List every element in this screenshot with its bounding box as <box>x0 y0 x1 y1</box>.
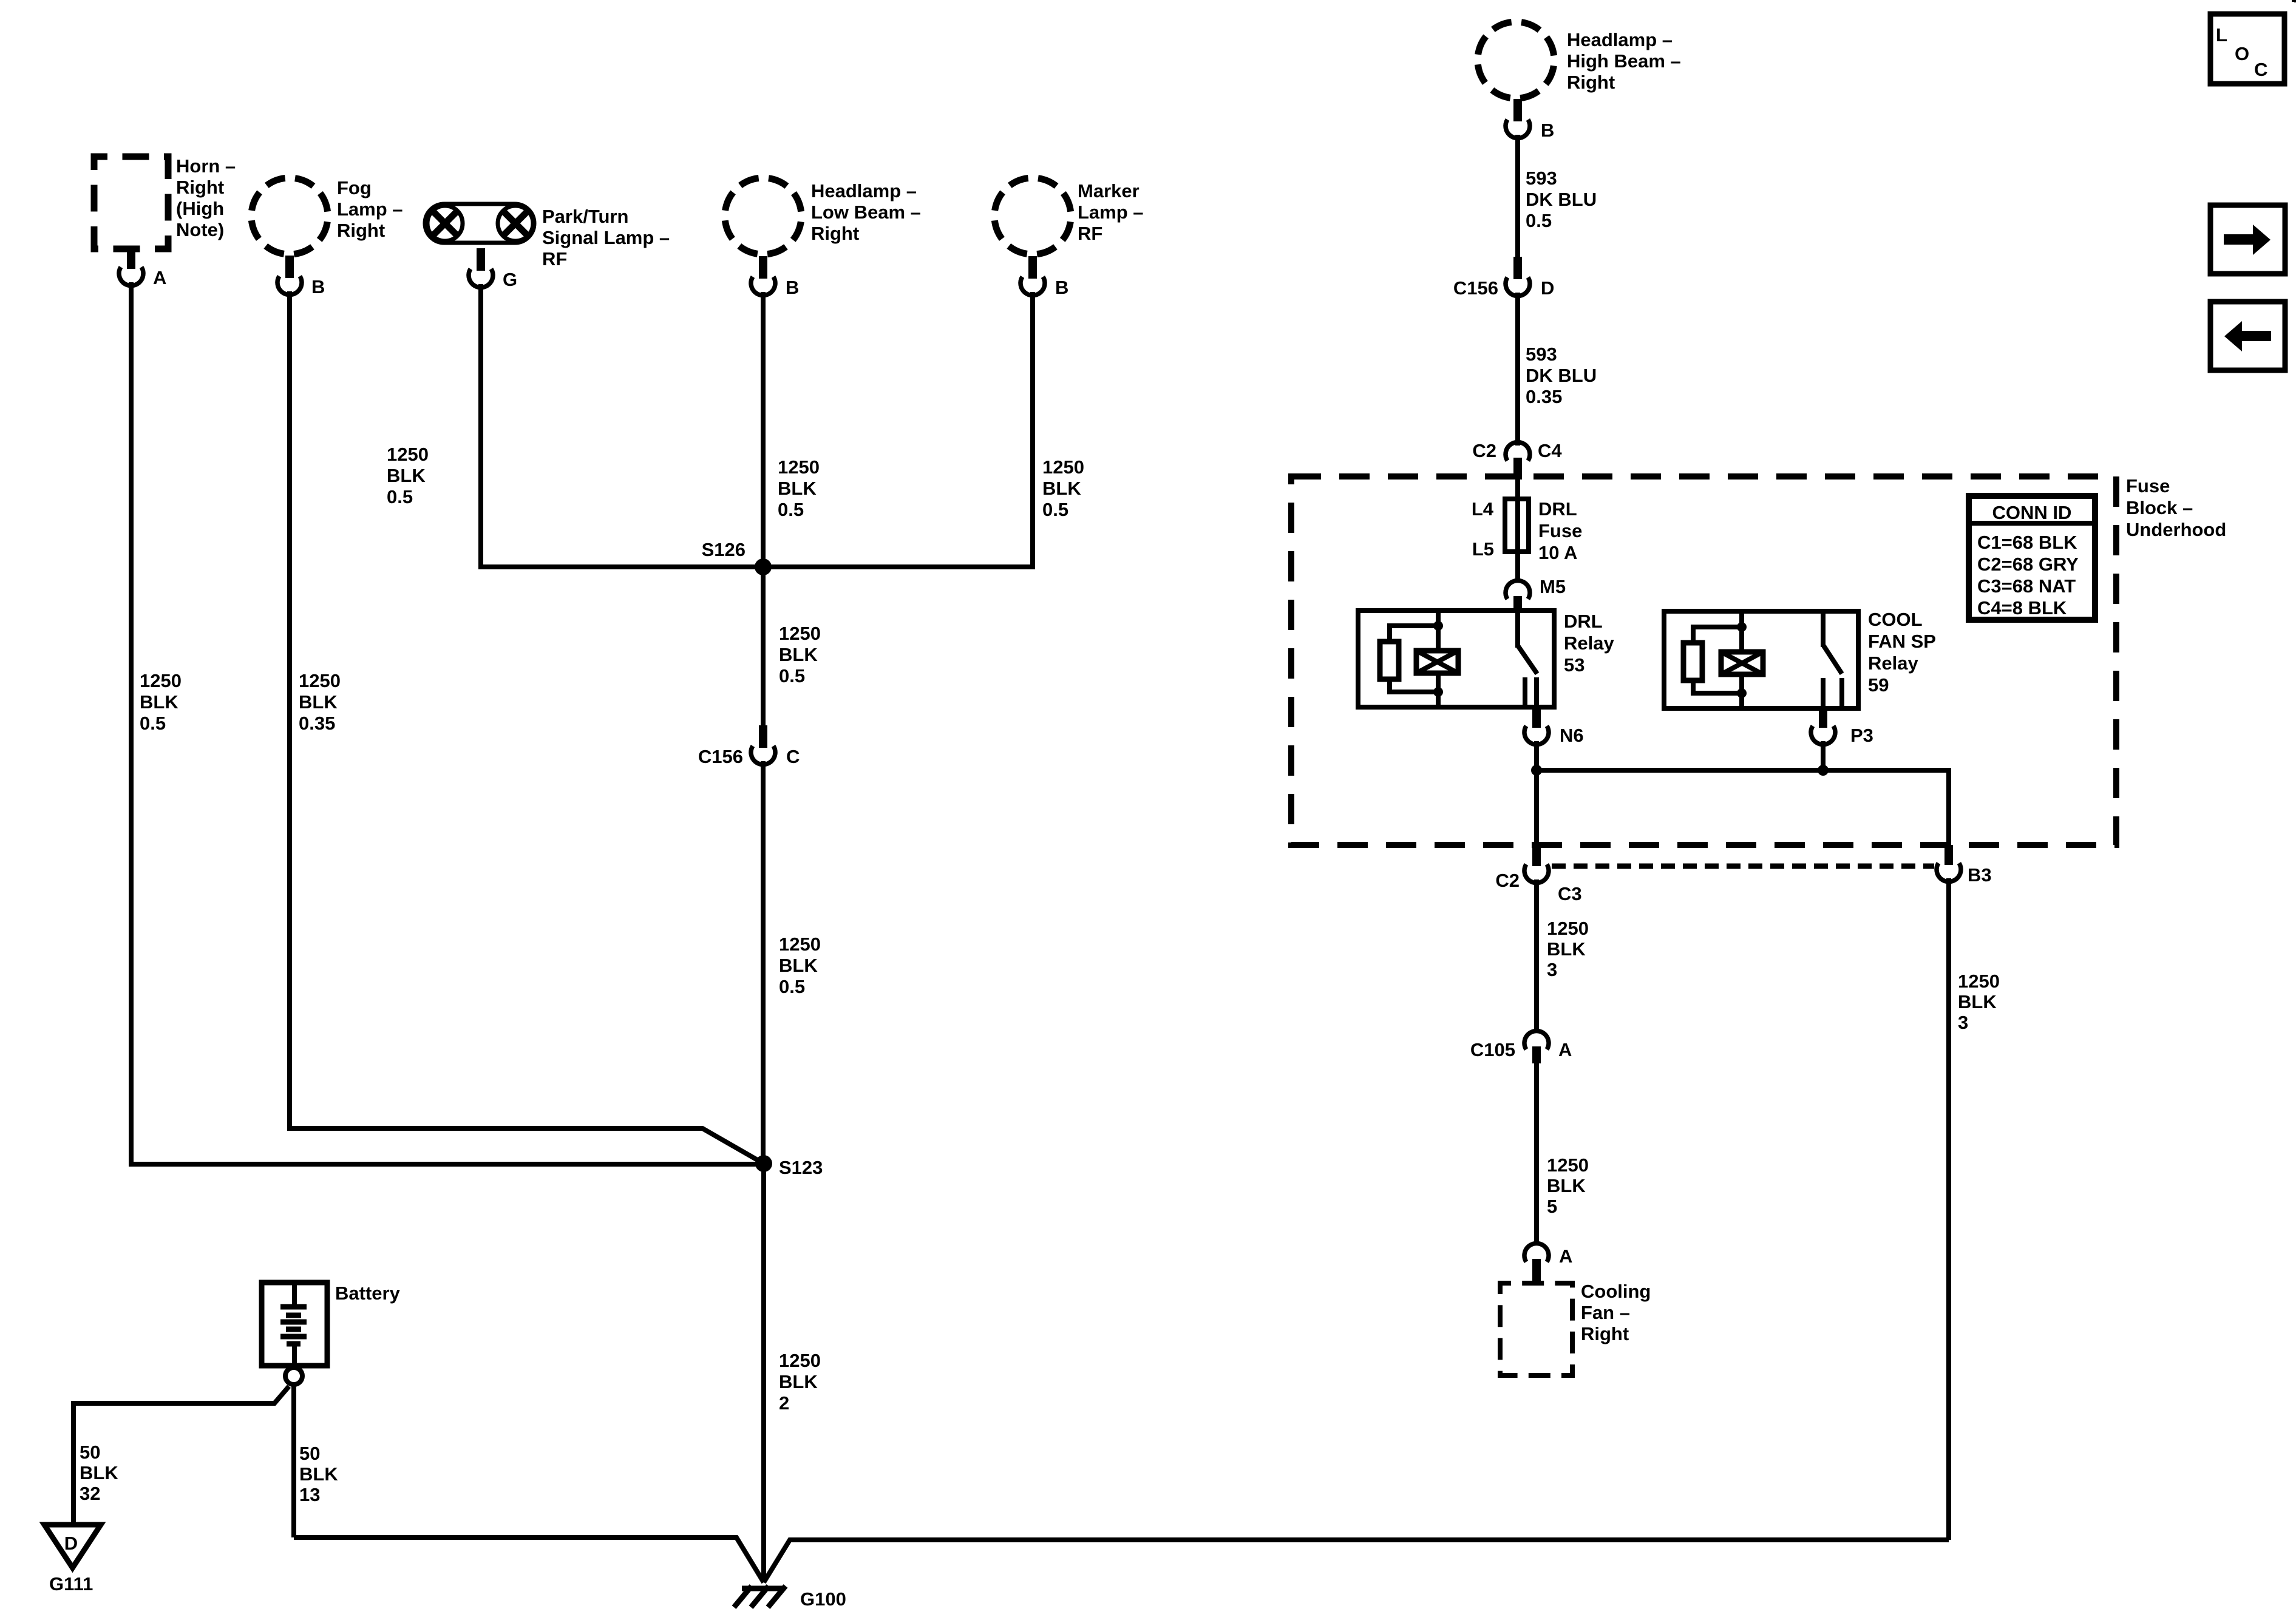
wire label 50 BLK 32 <box>80 1442 118 1504</box>
connector B (high beam) <box>1506 99 1530 138</box>
svg-text:Right: Right <box>1581 1323 1629 1344</box>
connector N6 <box>1524 707 1549 745</box>
DRL relay box <box>1358 611 1554 707</box>
svg-text:Fog: Fog <box>337 177 372 198</box>
wire C2/C3 to C105 <box>1534 879 1539 1032</box>
svg-text:C3: C3 <box>1558 883 1582 904</box>
svg-text:3: 3 <box>1958 1012 1968 1033</box>
svg-text:Right: Right <box>337 220 385 241</box>
fuse block label <box>2126 475 2226 540</box>
svg-text:Right: Right <box>1567 72 1615 93</box>
svg-text:1250: 1250 <box>140 670 182 691</box>
svg-text:BLK: BLK <box>299 1463 338 1485</box>
park/turn left bulb X <box>432 211 458 236</box>
svg-text:FAN SP: FAN SP <box>1868 631 1936 652</box>
wire label 1250 BLK 3 (C2) <box>1547 918 1589 980</box>
svg-text:5: 5 <box>1547 1196 1557 1217</box>
svg-text:1250: 1250 <box>778 456 820 478</box>
connector A (horn) <box>119 246 143 286</box>
svg-text:S123: S123 <box>779 1157 823 1178</box>
CONN ID table box <box>1969 496 2095 620</box>
COOL relay switch <box>1823 611 1842 708</box>
wire label 1250 BLK 0.5 (S126-C156) <box>779 623 821 686</box>
CONN ID rows <box>1977 532 2079 619</box>
svg-text:DRL: DRL <box>1538 498 1577 520</box>
svg-text:B: B <box>1541 120 1554 141</box>
wire C105 to cooling fan <box>1534 1062 1539 1244</box>
connector B (fog lamp) <box>277 256 302 295</box>
svg-text:0.5: 0.5 <box>779 665 805 686</box>
horn label <box>176 155 236 240</box>
svg-text:C4=8 BLK: C4=8 BLK <box>1977 597 2067 619</box>
COOL FAN SP relay box <box>1664 611 1858 708</box>
svg-text:Low Beam –: Low Beam – <box>811 202 921 223</box>
wire label 1250 BLK 0.5 (marker) <box>1042 456 1084 520</box>
ground G100 symbol <box>734 1586 786 1607</box>
svg-text:Park/Turn: Park/Turn <box>542 206 628 227</box>
wire label 1250 BLK 0.5 (horn) <box>140 670 182 734</box>
COOL FAN SP relay label <box>1868 609 1936 696</box>
fog lamp label <box>337 177 403 241</box>
svg-text:Fan –: Fan – <box>1581 1302 1630 1323</box>
svg-text:C156: C156 <box>698 746 743 767</box>
connector C105 A dome <box>1524 1031 1549 1063</box>
svg-text:S126: S126 <box>702 539 746 560</box>
svg-text:CONN ID: CONN ID <box>1992 502 2072 523</box>
svg-text:RF: RF <box>1078 223 1102 244</box>
svg-text:BLK: BLK <box>387 465 426 486</box>
wire S126 horizontal rail <box>481 564 1033 569</box>
battery negative terminal circle <box>285 1368 302 1384</box>
svg-text:0.35: 0.35 <box>299 713 335 734</box>
svg-text:C1=68 BLK: C1=68 BLK <box>1977 532 2077 553</box>
wire label 593 DK BLU 0.5 <box>1526 168 1597 231</box>
svg-text:593: 593 <box>1526 168 1557 189</box>
headlamp - high beam - right dashed circle <box>1478 22 1554 98</box>
COOL relay coil diode box <box>1721 652 1763 674</box>
svg-text:C: C <box>786 746 800 767</box>
wire P3 down to rail <box>1821 741 1826 770</box>
svg-text:C105: C105 <box>1470 1039 1515 1060</box>
wire low beam to S126 <box>761 292 766 567</box>
svg-text:BLK: BLK <box>80 1462 118 1483</box>
wire C4 into fuse block <box>1515 478 1520 499</box>
svg-text:1250: 1250 <box>779 934 821 955</box>
svg-text:DRL: DRL <box>1564 611 1603 632</box>
svg-text:0.5: 0.5 <box>1526 210 1552 231</box>
svg-text:13: 13 <box>299 1484 320 1505</box>
page corner artifact <box>2292 0 2296 2</box>
svg-text:Note): Note) <box>176 219 224 240</box>
connector M5 dome <box>1506 580 1530 611</box>
wire through DRL fuse <box>1515 499 1520 580</box>
junction dot at P3 rail <box>1818 765 1829 776</box>
LOC letters <box>2216 24 2267 80</box>
svg-text:G111: G111 <box>49 1573 93 1595</box>
svg-text:Headlamp –: Headlamp – <box>1567 29 1673 50</box>
svg-text:BLK: BLK <box>1547 938 1586 960</box>
svg-text:A: A <box>1558 1039 1572 1060</box>
splice S123 junction dot <box>755 1155 772 1172</box>
svg-text:0.5: 0.5 <box>778 499 804 520</box>
connector A (cooling fan) dome <box>1524 1243 1549 1282</box>
svg-text:Horn –: Horn – <box>176 155 236 177</box>
COOL relay junction dots <box>1737 622 1747 698</box>
svg-text:D: D <box>64 1533 78 1554</box>
svg-text:COOL: COOL <box>1868 609 1923 630</box>
wire park/turn down to S126 rail <box>478 284 483 569</box>
svg-text:1250: 1250 <box>779 623 821 644</box>
DRL relay coil branch <box>1390 611 1438 707</box>
headlamp low beam label <box>811 180 921 244</box>
svg-text:C2=68 GRY: C2=68 GRY <box>1977 554 2079 575</box>
svg-text:1250: 1250 <box>1958 971 2000 992</box>
left arrow <box>2224 321 2271 351</box>
svg-text:1250: 1250 <box>1547 918 1589 939</box>
svg-text:593: 593 <box>1526 344 1557 365</box>
svg-text:G100: G100 <box>800 1588 846 1610</box>
battery cell plates <box>280 1283 307 1366</box>
svg-text:B: B <box>311 276 325 297</box>
LOC legend box <box>2210 14 2284 84</box>
headlamp high beam label <box>1567 29 1681 93</box>
fog lamp - right dashed circle <box>251 178 328 254</box>
wire left ground rail <box>294 1537 764 1582</box>
park/turn right bulb X <box>503 211 528 236</box>
park/turn label <box>542 206 670 269</box>
svg-text:1250: 1250 <box>1042 456 1084 478</box>
svg-text:G: G <box>503 269 517 290</box>
fuse block - underhood dashed border <box>1291 476 2116 845</box>
wire label 1250 BLK 0.35 (fog) <box>299 670 341 734</box>
svg-text:1250: 1250 <box>779 1350 821 1371</box>
wire label 1250 BLK 2 <box>779 1350 821 1414</box>
right arrow <box>2224 225 2271 255</box>
connector B (low beam) <box>751 256 775 296</box>
left arrow box <box>2210 302 2285 370</box>
svg-text:Marker: Marker <box>1078 180 1140 202</box>
wire high beam to C156 D <box>1515 135 1520 259</box>
svg-text:B: B <box>1055 277 1068 298</box>
cooling fan label <box>1581 1281 1651 1344</box>
svg-text:DK BLU: DK BLU <box>1526 365 1597 386</box>
svg-text:BLK: BLK <box>299 691 338 713</box>
svg-text:BLK: BLK <box>1042 478 1081 499</box>
svg-text:RF: RF <box>542 248 567 269</box>
COOL relay coil branch <box>1693 611 1742 708</box>
svg-text:O: O <box>2235 43 2249 64</box>
wire battery to G111 <box>73 1386 289 1525</box>
wire label 1250 BLK 5 <box>1547 1154 1589 1217</box>
connector C2/C4 dome <box>1506 442 1530 480</box>
CONN ID header line <box>1969 521 2095 526</box>
wire S126 to C156 <box>761 567 766 727</box>
wire S123 to G100 <box>761 1164 766 1582</box>
splice S126 junction dot <box>755 558 772 575</box>
svg-text:L5: L5 <box>1472 538 1494 560</box>
svg-text:1250: 1250 <box>299 670 341 691</box>
svg-text:3: 3 <box>1547 959 1557 980</box>
svg-text:High Beam –: High Beam – <box>1567 50 1681 72</box>
svg-text:50: 50 <box>80 1442 100 1463</box>
svg-text:Right: Right <box>176 177 224 198</box>
wire right ground rail <box>764 1540 1949 1582</box>
connector B (marker) <box>1021 256 1045 296</box>
DRL fuse body <box>1505 499 1529 552</box>
svg-text:C156: C156 <box>1453 277 1498 299</box>
svg-text:B: B <box>786 277 799 298</box>
svg-text:0.5: 0.5 <box>1042 499 1068 520</box>
svg-text:1250: 1250 <box>387 444 429 465</box>
DRL relay label <box>1564 611 1614 676</box>
svg-text:Relay: Relay <box>1868 652 1918 674</box>
wire battery down to ground rail <box>291 1384 296 1537</box>
DRL relay switch <box>1518 611 1537 707</box>
svg-text:Block –: Block – <box>2126 497 2193 518</box>
connector C156 C <box>751 725 775 765</box>
right arrow box <box>2210 205 2285 274</box>
svg-text:N6: N6 <box>1560 725 1584 746</box>
svg-text:C4: C4 <box>1538 440 1562 461</box>
park/turn left bulb circle <box>427 206 463 241</box>
svg-text:Right: Right <box>811 223 859 244</box>
cooling fan - right dashed box <box>1500 1283 1572 1375</box>
svg-text:BLK: BLK <box>1547 1175 1586 1196</box>
wire C2 down from rail <box>1534 770 1539 847</box>
svg-text:M5: M5 <box>1540 576 1566 597</box>
svg-text:2: 2 <box>779 1392 789 1414</box>
svg-text:C: C <box>2254 59 2267 80</box>
wire label 1250 BLK 0.5 (low beam) <box>778 456 820 520</box>
svg-text:L4: L4 <box>1472 498 1494 520</box>
svg-text:Headlamp –: Headlamp – <box>811 180 917 202</box>
svg-text:DK BLU: DK BLU <box>1526 189 1597 210</box>
wire C156 D to C2/C4 <box>1515 293 1520 446</box>
svg-text:BLK: BLK <box>140 691 178 713</box>
park/turn signal lamp - RF stadium body <box>425 204 534 243</box>
svg-text:D: D <box>1541 277 1554 299</box>
svg-text:1250: 1250 <box>1547 1154 1589 1176</box>
svg-text:0.5: 0.5 <box>387 486 413 507</box>
svg-text:BLK: BLK <box>779 955 818 976</box>
svg-text:Lamp –: Lamp – <box>337 198 403 220</box>
ground G111 triangle <box>44 1525 101 1568</box>
park/turn right bulb circle <box>498 206 533 241</box>
wire C156 to S123 <box>761 761 766 1164</box>
svg-text:L: L <box>2216 24 2227 46</box>
marker lamp label <box>1078 180 1144 244</box>
svg-text:10 A: 10 A <box>1538 542 1577 563</box>
DRL relay coil diode box <box>1416 651 1458 673</box>
svg-text:Battery: Battery <box>335 1283 401 1304</box>
wire label 1250 BLK 3 (B3) <box>1958 971 2000 1033</box>
svg-text:32: 32 <box>80 1483 100 1504</box>
svg-text:C3=68 NAT: C3=68 NAT <box>1977 575 2076 597</box>
svg-text:B3: B3 <box>1968 864 1992 886</box>
svg-text:Lamp –: Lamp – <box>1078 202 1144 223</box>
wire label 593 DK BLU 0.35 <box>1526 344 1597 407</box>
wire N6 down to rail <box>1534 741 1539 770</box>
DRL relay coil resistor <box>1380 642 1399 679</box>
svg-text:BLK: BLK <box>779 1371 818 1392</box>
battery box <box>262 1283 327 1366</box>
COOL relay coil resistor <box>1683 643 1702 680</box>
svg-text:0.5: 0.5 <box>779 976 805 997</box>
headlamp - low beam - right dashed circle <box>725 178 801 254</box>
svg-text:Signal Lamp –: Signal Lamp – <box>542 227 670 248</box>
svg-text:BLK: BLK <box>779 644 818 665</box>
svg-text:53: 53 <box>1564 654 1584 676</box>
svg-text:0.5: 0.5 <box>140 713 166 734</box>
svg-text:Relay: Relay <box>1564 632 1614 654</box>
dotted connector line C3 to B3 <box>1552 864 1934 869</box>
wire B3 down to ground rail <box>1946 878 1951 1540</box>
connector G (park/turn) <box>469 248 493 288</box>
svg-text:BLK: BLK <box>778 478 817 499</box>
wire N6/P3 horizontal rail <box>1537 770 1949 846</box>
svg-text:50: 50 <box>299 1443 320 1464</box>
svg-text:BLK: BLK <box>1958 991 1997 1012</box>
connector P3 <box>1811 708 1835 745</box>
wire fog to S123 <box>290 291 764 1164</box>
svg-text:A: A <box>153 267 166 288</box>
svg-text:Fuse: Fuse <box>1538 520 1582 541</box>
svg-text:(High: (High <box>176 198 224 219</box>
wire label 1250 BLK 0.5 (C156-S123) <box>779 934 821 997</box>
marker lamp - RF dashed circle <box>994 178 1071 254</box>
horn - right (high note) component box <box>94 157 168 249</box>
connector C156 D <box>1506 257 1530 296</box>
junction dot at N6 rail <box>1531 765 1542 776</box>
wire horn to S123 <box>131 282 764 1164</box>
svg-text:C2: C2 <box>1472 440 1496 461</box>
svg-text:Cooling: Cooling <box>1581 1281 1651 1302</box>
svg-text:Underhood: Underhood <box>2126 519 2226 540</box>
svg-text:59: 59 <box>1868 674 1889 696</box>
connector C2/C3 <box>1524 846 1549 883</box>
svg-text:A: A <box>1559 1246 1572 1267</box>
wire label 1250 BLK 0.5 (park/turn) <box>387 444 429 507</box>
wire marker down to S126 rail <box>1030 292 1035 569</box>
svg-text:0.35: 0.35 <box>1526 386 1562 407</box>
DRL relay junction dots <box>1433 621 1443 697</box>
DRL fuse label <box>1538 498 1582 563</box>
svg-text:C2: C2 <box>1495 870 1520 891</box>
connector B3 <box>1937 845 1961 882</box>
svg-text:P3: P3 <box>1850 725 1873 746</box>
wire label 50 BLK 13 <box>299 1443 338 1505</box>
svg-text:Fuse: Fuse <box>2126 475 2170 497</box>
